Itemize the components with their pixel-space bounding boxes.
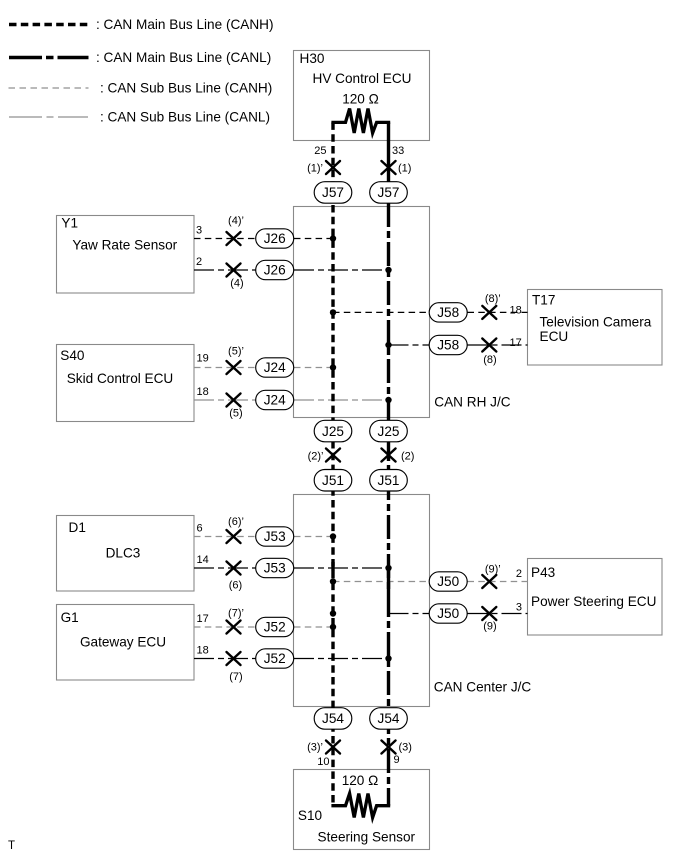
svg-text:: CAN Sub Bus Line (CANL): : CAN Sub Bus Line (CANL) bbox=[100, 110, 270, 125]
svg-text:J25: J25 bbox=[378, 424, 400, 439]
connector J26 CANH bbox=[256, 229, 294, 248]
svg-text:(7)’: (7)’ bbox=[228, 608, 244, 620]
splice X (4) bbox=[227, 264, 241, 277]
svg-text:Steering Sensor: Steering Sensor bbox=[318, 830, 416, 845]
svg-text:(3)’: (3)’ bbox=[307, 742, 323, 754]
node box CAN RH J/C bbox=[294, 207, 430, 418]
svg-text:J53: J53 bbox=[264, 529, 286, 544]
svg-text:D1: D1 bbox=[69, 520, 86, 535]
svg-text:19: 19 bbox=[197, 352, 209, 364]
splice X (4)' bbox=[227, 232, 241, 245]
connector J58 CANH bbox=[429, 303, 467, 322]
connector J24 CANL bbox=[256, 390, 294, 409]
wire J52 to CANH bus bbox=[294, 626, 333, 628]
splice X (6) bbox=[227, 562, 241, 575]
connector J52 CANH bbox=[256, 617, 294, 636]
wire J53 to CANL bus bbox=[294, 567, 389, 569]
svg-text:(1)’: (1)’ bbox=[307, 163, 323, 175]
wire J53 to CANH bus bbox=[294, 536, 333, 538]
svg-text:J57: J57 bbox=[378, 185, 400, 200]
svg-text:J26: J26 bbox=[264, 231, 286, 246]
svg-text:J52: J52 bbox=[264, 651, 286, 666]
svg-text:18: 18 bbox=[197, 644, 209, 656]
wire G1 pin18 CANL to J52 bbox=[194, 658, 256, 660]
connector J50 CANL bbox=[429, 604, 467, 623]
svg-text:J51: J51 bbox=[322, 473, 344, 488]
legend line: CAN Main Bus Line CANH bbox=[9, 23, 89, 27]
svg-text:120 Ω: 120 Ω bbox=[342, 773, 379, 788]
svg-text:Yaw Rate Sensor: Yaw Rate Sensor bbox=[72, 238, 177, 253]
svg-text:Power Steering ECU: Power Steering ECU bbox=[531, 594, 656, 609]
svg-text:25: 25 bbox=[314, 145, 326, 157]
svg-text:: CAN Sub Bus Line (CANH): : CAN Sub Bus Line (CANH) bbox=[100, 81, 272, 96]
svg-text:(4): (4) bbox=[230, 277, 243, 289]
svg-text:J54: J54 bbox=[322, 711, 344, 726]
wire CANL bus to J58 bbox=[389, 344, 430, 346]
svg-text:(7): (7) bbox=[229, 671, 242, 683]
wire J26 to CANL bus bbox=[294, 269, 389, 271]
junction dot J24 CANH bbox=[330, 364, 336, 370]
wire CANH bus to J58 bbox=[333, 311, 429, 313]
svg-text:(9)’: (9)’ bbox=[485, 564, 501, 576]
svg-text:2: 2 bbox=[516, 568, 522, 580]
junction dot J26 CANL bbox=[385, 267, 391, 273]
splice X (5) bbox=[227, 394, 241, 407]
wire D1 pin14 CANL to J53 bbox=[194, 567, 256, 569]
connector J57 CANL bbox=[370, 182, 408, 204]
svg-text:J53: J53 bbox=[264, 561, 286, 576]
svg-text:(6): (6) bbox=[229, 579, 242, 591]
connector J24 CANH bbox=[256, 358, 294, 377]
svg-text:10: 10 bbox=[317, 756, 329, 768]
wire J52 to CANL bus bbox=[294, 658, 389, 660]
ECU box S40 Skid Control ECU bbox=[57, 345, 195, 422]
connector J53 CANH bbox=[256, 527, 294, 546]
svg-text:Television Camera: Television Camera bbox=[540, 314, 652, 329]
splice X (3)' on CANH bus bbox=[326, 741, 340, 754]
connector J54 CANL bbox=[370, 708, 408, 730]
ECU box S10 Steering Sensor bbox=[294, 770, 430, 850]
wire J24 to CANL bus bbox=[294, 399, 389, 401]
wire CANL bus to J50 bbox=[389, 613, 430, 615]
svg-text:(4)’: (4)’ bbox=[228, 215, 244, 227]
splice X (2) on CANL bus bbox=[382, 449, 396, 462]
svg-text:S10: S10 bbox=[298, 808, 323, 823]
wire G1 pin17 CANH to J52 bbox=[194, 626, 256, 628]
svg-text:CAN RH J/C: CAN RH J/C bbox=[434, 395, 510, 410]
svg-text:18: 18 bbox=[197, 386, 209, 398]
svg-text:17: 17 bbox=[510, 337, 522, 349]
svg-text:(3): (3) bbox=[399, 742, 412, 754]
junction dot J52 CANH bbox=[330, 624, 336, 630]
wire CAN main bus CANH vertical bbox=[331, 122, 334, 805]
svg-text:J50: J50 bbox=[437, 606, 459, 621]
connector J57 CANH bbox=[314, 182, 352, 204]
svg-text:(1): (1) bbox=[398, 163, 411, 175]
ECU box D1 DLC3 bbox=[57, 516, 195, 592]
splice X (9)' bbox=[482, 575, 496, 588]
wire J26 to CANH bus bbox=[294, 238, 333, 240]
svg-text:(2)’: (2)’ bbox=[308, 451, 324, 463]
svg-text:Y1: Y1 bbox=[61, 216, 78, 231]
splice X (6)' bbox=[227, 530, 241, 543]
junction dot J26 CANH bbox=[330, 235, 336, 241]
svg-text:J57: J57 bbox=[322, 185, 344, 200]
svg-text:J51: J51 bbox=[378, 473, 400, 488]
svg-text:ECU: ECU bbox=[540, 329, 569, 344]
wire S40 pin18 CANL to J24 bbox=[194, 399, 256, 401]
svg-text:J58: J58 bbox=[437, 305, 459, 320]
resistor 120 ohm in H30 bbox=[331, 109, 390, 134]
legend line: CAN Main Bus Line CANL bbox=[9, 56, 89, 60]
connector J58 CANL bbox=[429, 335, 467, 354]
connector J25 CANH bbox=[314, 420, 352, 442]
splice X (8)' bbox=[482, 306, 496, 319]
resistor 120 ohm in S10 bbox=[331, 794, 390, 818]
svg-text:T17: T17 bbox=[532, 292, 555, 307]
svg-text:3: 3 bbox=[196, 224, 202, 236]
svg-text:H30: H30 bbox=[300, 51, 325, 66]
svg-text:(5)’: (5)’ bbox=[228, 346, 244, 358]
svg-text:(2): (2) bbox=[401, 451, 414, 463]
legend line: CAN Sub Bus Line CANL bbox=[9, 116, 89, 118]
svg-text:T: T bbox=[8, 840, 15, 852]
svg-text:17: 17 bbox=[197, 613, 209, 625]
wire S40 pin19 CANH to J24 bbox=[194, 367, 256, 369]
junction dot J53 CANL bbox=[385, 565, 391, 571]
svg-text:14: 14 bbox=[197, 554, 209, 566]
wire D1 pin6 CANH to J53 bbox=[194, 536, 256, 538]
svg-text:DLC3: DLC3 bbox=[106, 546, 141, 561]
svg-text:9: 9 bbox=[394, 754, 400, 766]
ECU box Y1 Yaw Rate Sensor bbox=[57, 216, 195, 294]
svg-text:Gateway ECU: Gateway ECU bbox=[80, 634, 166, 649]
svg-text:18: 18 bbox=[510, 305, 522, 317]
svg-text:(8)’: (8)’ bbox=[485, 293, 501, 305]
splice X (1)' on CANH bus bbox=[326, 161, 340, 174]
connector J54 CANH bbox=[314, 708, 352, 730]
svg-text:J24: J24 bbox=[264, 393, 286, 408]
connector J50 CANH bbox=[429, 572, 467, 591]
svg-text:J50: J50 bbox=[437, 574, 459, 589]
svg-text:P43: P43 bbox=[531, 565, 555, 580]
ECU box G1 Gateway ECU bbox=[57, 605, 195, 681]
junction dot J52 CANL bbox=[385, 655, 391, 661]
svg-text:6: 6 bbox=[197, 522, 203, 534]
svg-text:HV Control ECU: HV Control ECU bbox=[313, 71, 412, 86]
svg-text:3: 3 bbox=[516, 602, 522, 614]
connector J53 CANL bbox=[256, 558, 294, 577]
node box CAN Center J/C bbox=[294, 495, 430, 707]
splice X (2)' on CANH bus bbox=[326, 449, 340, 462]
junction dot J24 CANL bbox=[385, 397, 391, 403]
svg-text:J26: J26 bbox=[264, 263, 286, 278]
junction dot J53 CANH bbox=[330, 533, 336, 539]
connector J25 CANL bbox=[370, 420, 408, 442]
connector J52 CANL bbox=[256, 649, 294, 668]
svg-text:J58: J58 bbox=[437, 338, 459, 353]
svg-text:S40: S40 bbox=[60, 348, 85, 363]
wire Y1 pin3 CANH to J26 bbox=[194, 238, 256, 240]
svg-text:CAN Center J/C: CAN Center J/C bbox=[434, 680, 532, 695]
ECU box H30 HV Control ECU bbox=[294, 51, 430, 141]
svg-text:(5): (5) bbox=[229, 407, 242, 419]
svg-text:J54: J54 bbox=[378, 711, 400, 726]
svg-text:J24: J24 bbox=[264, 360, 286, 375]
wire J24 to CANH bus bbox=[294, 367, 333, 369]
wire Y1 pin2 CANL to J26 bbox=[194, 269, 256, 271]
wire CAN main bus CANL vertical bbox=[387, 122, 390, 203]
svg-text:J52: J52 bbox=[264, 620, 286, 635]
svg-text:Skid Control ECU: Skid Control ECU bbox=[67, 371, 174, 386]
wire J50 to P43 pin2 bbox=[468, 581, 528, 583]
splice X (5)' bbox=[227, 361, 241, 374]
junction dot J58 CANL bbox=[385, 342, 391, 348]
wire CANH bus patch at J53 CANL crossing bbox=[331, 562, 334, 571]
splice X (7)' bbox=[227, 621, 241, 634]
svg-text:120 Ω: 120 Ω bbox=[342, 92, 379, 107]
legend line: CAN Sub Bus Line CANH bbox=[9, 87, 89, 89]
wire CANH bus to J50 bbox=[333, 581, 429, 583]
junction dot J50 CANH bbox=[330, 578, 336, 584]
svg-text:(6)’: (6)’ bbox=[228, 516, 244, 528]
svg-text:2: 2 bbox=[196, 256, 202, 268]
connector J51 CANL bbox=[370, 470, 408, 492]
junction dot J58 CANH bbox=[330, 309, 336, 315]
svg-text:: CAN Main Bus Line (CANL): : CAN Main Bus Line (CANL) bbox=[96, 50, 271, 65]
splice X (9) bbox=[482, 607, 496, 620]
connector J51 CANH bbox=[314, 470, 352, 492]
svg-text:33: 33 bbox=[392, 145, 404, 157]
splice X (1) on CANL bus bbox=[382, 161, 396, 174]
ECU box T17 Television Camera ECU bbox=[528, 290, 663, 366]
wire J58 to T17 pin17 bbox=[468, 344, 528, 346]
wire CANL bus patch at J50 CANH crossing bbox=[387, 566, 390, 593]
svg-text:G1: G1 bbox=[61, 610, 79, 625]
splice X (8) bbox=[482, 339, 496, 352]
svg-text:(9): (9) bbox=[483, 621, 496, 633]
wire J50 to P43 pin3 bbox=[468, 613, 528, 615]
svg-text:J25: J25 bbox=[322, 424, 344, 439]
svg-text:(8): (8) bbox=[483, 354, 496, 366]
splice X (3) on CANL bus bbox=[382, 741, 396, 754]
splice X (7) bbox=[227, 652, 241, 665]
wire J58 to T17 pin18 bbox=[468, 311, 528, 313]
svg-text:: CAN Main Bus Line (CANH): : CAN Main Bus Line (CANH) bbox=[96, 17, 274, 32]
ECU box P43 Power Steering ECU bbox=[528, 559, 663, 636]
wire CAN main bus CANL vertical lower bbox=[387, 203, 390, 806]
connector J26 CANL bbox=[256, 260, 294, 279]
junction dot J50 CANL bbox=[330, 610, 336, 616]
